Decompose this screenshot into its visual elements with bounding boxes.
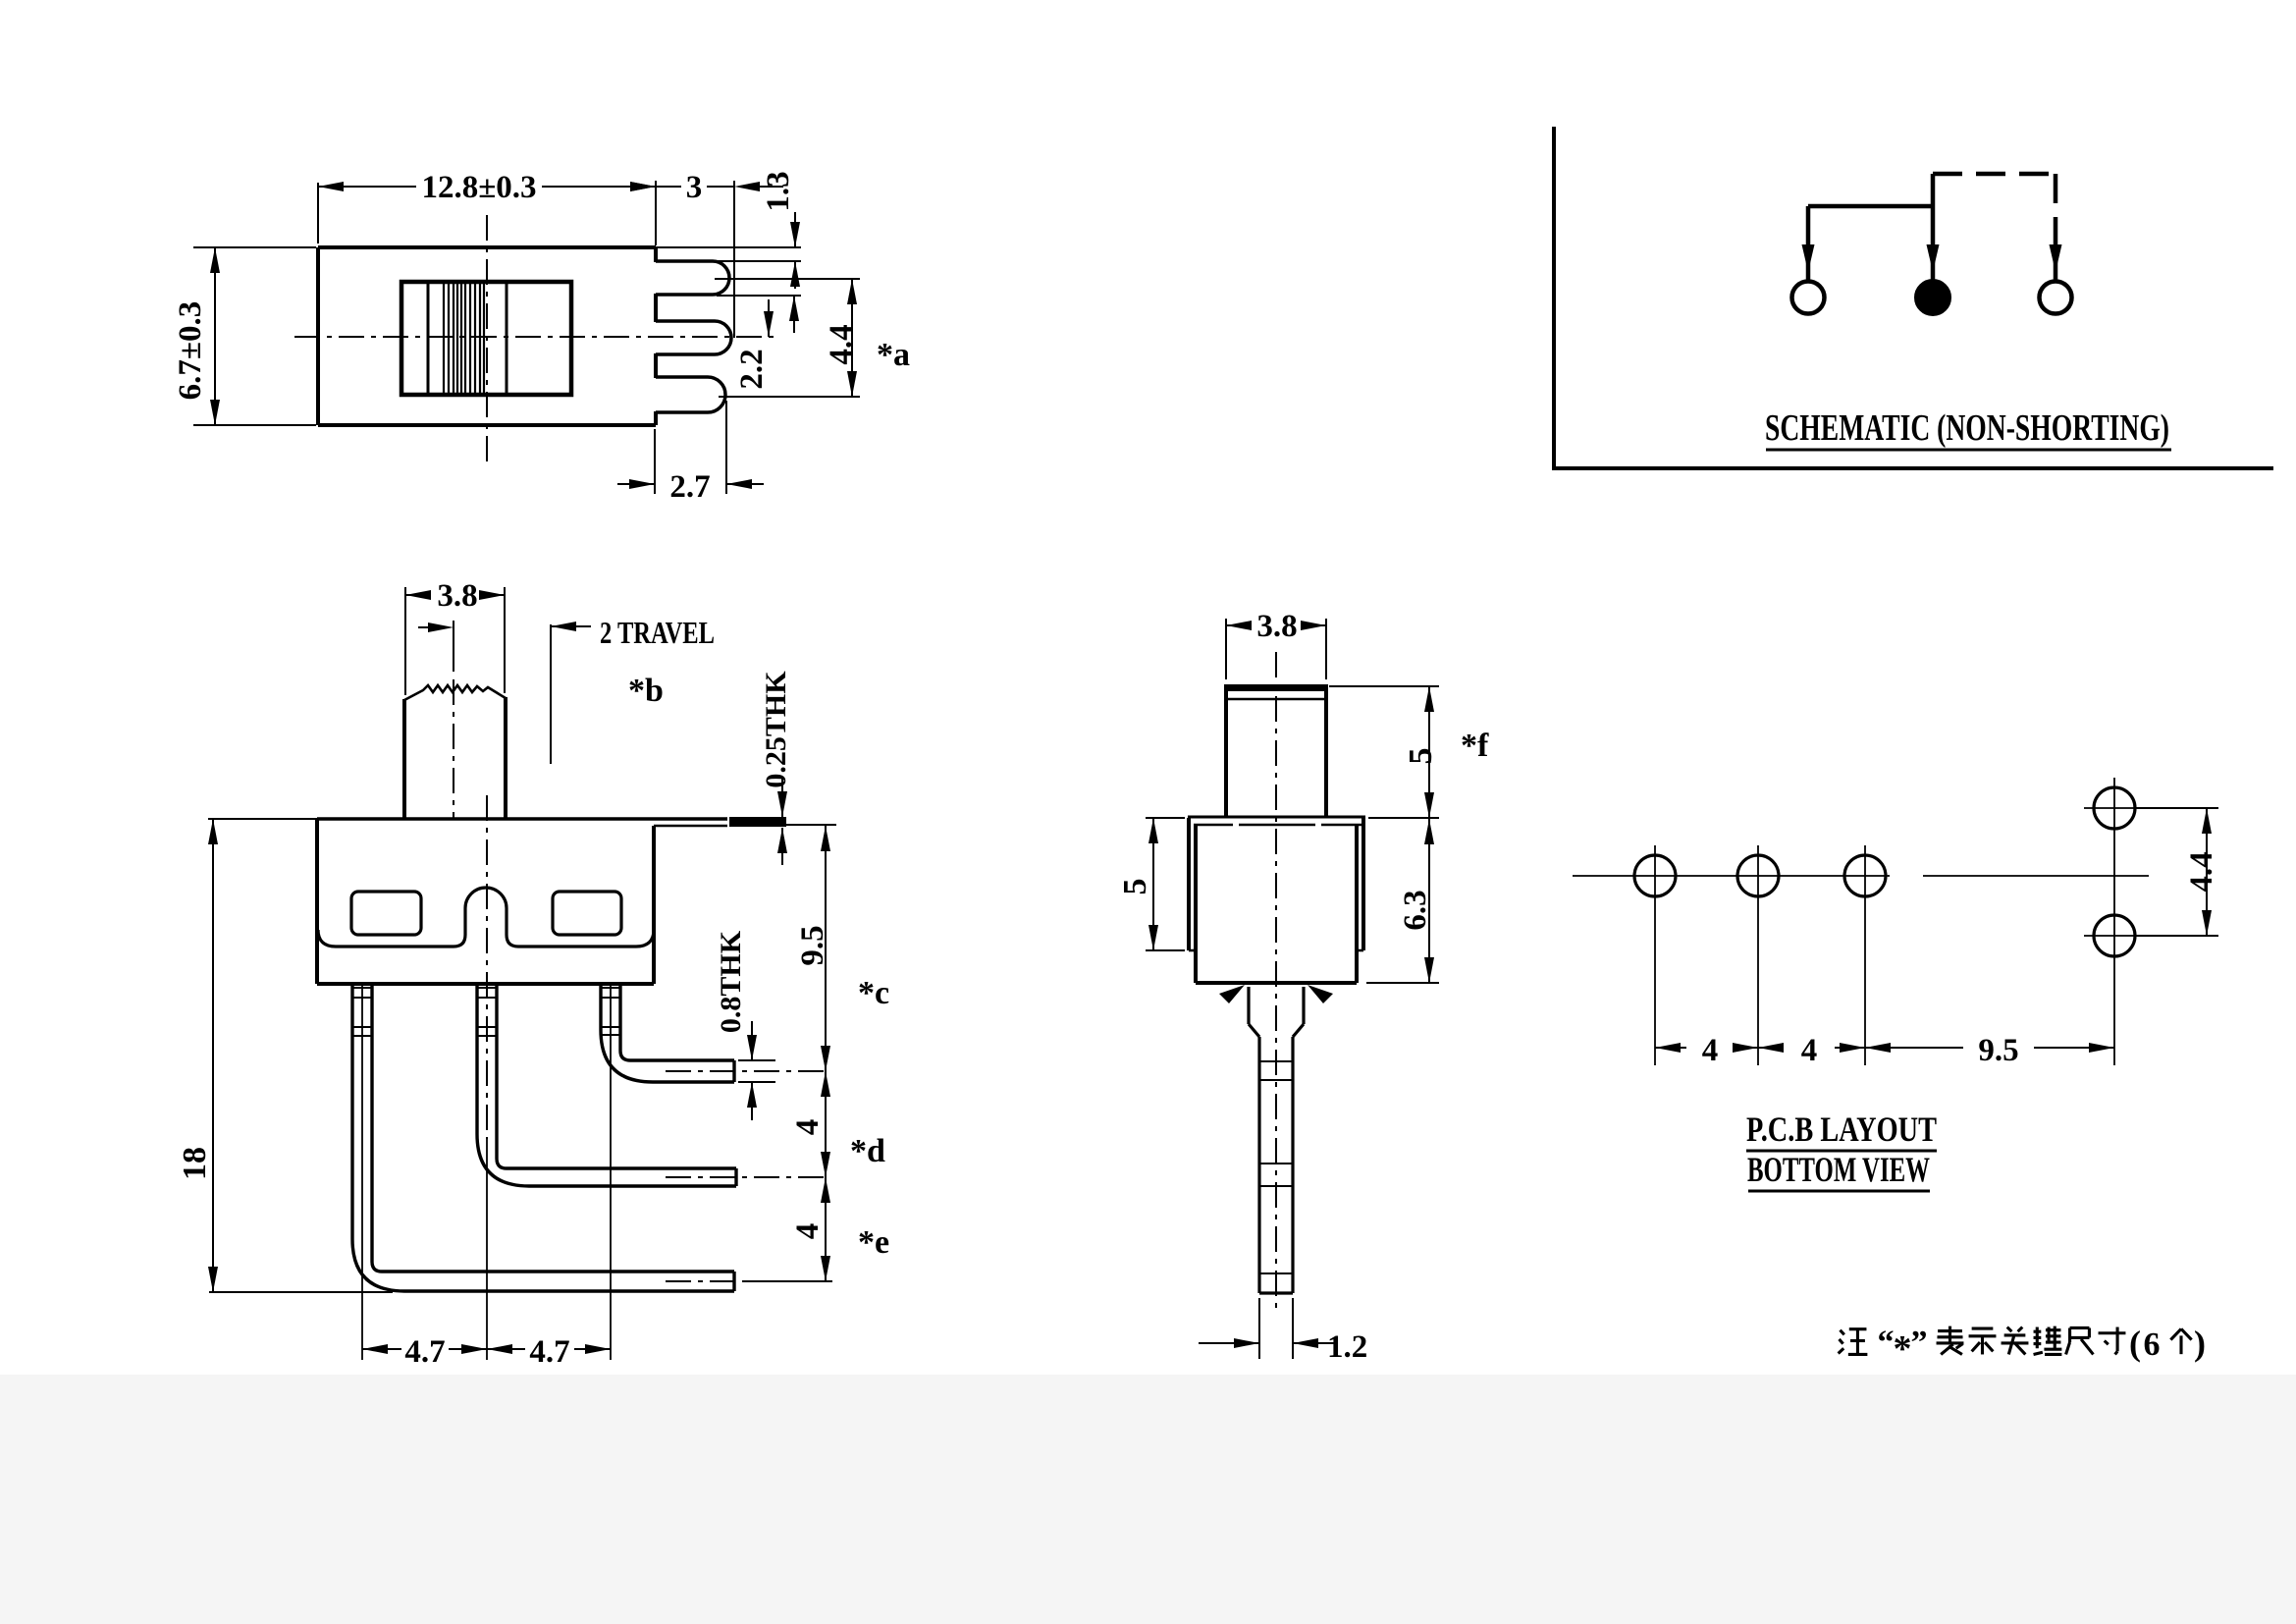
top view: switch body outline: [318, 247, 656, 425]
svg-text:*d: *d: [850, 1133, 885, 1169]
dimension 1.3 (notch): [656, 171, 801, 289]
dimension 3.8 (knob, side view): [1226, 609, 1326, 679]
dimension 6.7±0.3 (top view height): [173, 247, 316, 425]
svg-text:9.5: 9.5: [795, 925, 830, 965]
bottom scan band: [0, 1375, 2296, 1624]
front view: right window cutout: [553, 892, 621, 935]
svg-text:BOTTOM VIEW: BOTTOM VIEW: [1747, 1150, 1930, 1189]
svg-text:4: 4: [790, 1223, 826, 1240]
top view: terminal 1 (top prong): [656, 261, 729, 295]
svg-text:*a: *a: [877, 337, 910, 373]
side view: body with flange: [1188, 817, 1365, 983]
svg-text:”: ”: [1911, 1325, 1928, 1361]
dimension 9.5 with key mark *c: [786, 825, 889, 1071]
svg-text:*e: *e: [858, 1224, 889, 1261]
svg-text:4: 4: [790, 1119, 826, 1136]
svg-text:SCHEMATIC (NON-SHORTING): SCHEMATIC (NON-SHORTING): [1765, 407, 2169, 449]
top view: slider knob with knurling: [401, 282, 571, 395]
schematic wire: pole arrow to common terminal (solid): [1927, 174, 1940, 280]
svg-text:3.8: 3.8: [1256, 609, 1297, 644]
dimension 1.2 (pin width): [1199, 1298, 1367, 1365]
svg-text:12.8±0.3: 12.8±0.3: [421, 170, 536, 205]
svg-text:9.5: 9.5: [1978, 1033, 2018, 1068]
svg-text:0.25THK: 0.25THK: [760, 671, 792, 788]
top view: vertical centerline: [486, 215, 488, 467]
svg-text:4.4: 4.4: [824, 324, 859, 364]
svg-text:4: 4: [1801, 1033, 1818, 1068]
front view: knob centerline: [453, 621, 454, 818]
svg-text:6: 6: [2144, 1326, 2161, 1363]
dimension 2.7 (bottom terminal length): [617, 401, 764, 505]
front view: knob with break line: [404, 685, 506, 819]
dimension 3.8 (knob width, front): [405, 578, 505, 695]
svg-text:6.3: 6.3: [1398, 890, 1433, 930]
svg-text:*f: *f: [1461, 728, 1489, 764]
svg-text:1.2: 1.2: [1327, 1329, 1367, 1365]
schematic common terminal (filled circle): [1916, 281, 1950, 315]
side view: knob: [1226, 684, 1326, 817]
schematic terminal 1 (open circle): [1792, 282, 1825, 314]
dimension 5 with key mark *f (knob height): [1329, 686, 1489, 818]
svg-text:*c: *c: [858, 975, 889, 1011]
front view: pin 2 (middle, bent middle): [477, 984, 736, 1186]
front view: body outline: [208, 819, 727, 984]
front view: 0.25 thick metal tab (solid bar): [729, 817, 786, 827]
svg-text:4.7: 4.7: [529, 1334, 569, 1370]
dimension 4 (pin 3 to pin 2 leg) with key mark *d: [790, 1071, 885, 1177]
svg-text:5: 5: [1403, 748, 1439, 765]
svg-text:2.7: 2.7: [669, 469, 710, 505]
pcb layout: hole 4 (top right): [2084, 787, 2145, 829]
svg-text:*b: *b: [628, 673, 664, 709]
svg-text:(: (: [2129, 1324, 2141, 1363]
svg-text:2 TRAVEL: 2 TRAVEL: [600, 615, 715, 650]
dimension 2 TRAVEL with arrow leader: [418, 615, 715, 764]
pcb layout: hole 1: [1634, 845, 1676, 1065]
dimension 5 (flange height, side): [1117, 818, 1185, 950]
svg-text:5: 5: [1117, 879, 1153, 895]
side view: snap barbs: [1219, 985, 1333, 1003]
side view: mounting pin: [1249, 987, 1304, 1293]
dimension 18 (overall height): [177, 819, 393, 1292]
pcb layout title text: [1746, 1110, 1937, 1191]
dimension 6.3 (body height, side): [1366, 818, 1439, 983]
svg-text:4.7: 4.7: [404, 1334, 445, 1370]
svg-text:3.8: 3.8: [437, 578, 477, 614]
top view: terminal 2 (middle prong): [656, 321, 731, 354]
schematic border (title block corner): [1552, 127, 2273, 468]
side view: vertical centerline: [1275, 652, 1277, 1308]
front view: horizontal leg centerlines: [666, 1071, 829, 1281]
svg-text:4: 4: [1702, 1033, 1719, 1068]
svg-text:3: 3: [686, 170, 703, 205]
svg-text:2.2: 2.2: [734, 349, 770, 389]
svg-text:18: 18: [177, 1147, 213, 1180]
front view: pin 1 (left, bent bottom): [352, 984, 734, 1291]
top view: horizontal centerline: [294, 336, 775, 338]
svg-text:P.C.B LAYOUT: P.C.B LAYOUT: [1746, 1110, 1937, 1149]
top view: terminal 3 (bottom prong): [656, 377, 725, 412]
dimension 4.4 with key mark *a: [715, 279, 910, 397]
front view: pin centerline extension lines: [362, 795, 611, 1360]
svg-text:*: *: [1894, 1328, 1912, 1370]
svg-text:0.8THK: 0.8THK: [715, 930, 747, 1033]
dimension 4 (pin 2 to pin 1 leg) with key mark *e: [746, 1177, 889, 1281]
svg-text:“: “: [1878, 1325, 1895, 1361]
dimension 0.25THK (metal tab thickness): [760, 671, 792, 865]
svg-text:6.7±0.3: 6.7±0.3: [173, 301, 208, 401]
dimension 0.8THK (pin thickness): [715, 930, 775, 1120]
pcb layout: hole centerline horizontal: [1573, 875, 2149, 877]
dimension 2.2 (terminal pitch): [717, 296, 801, 390]
svg-text:1.3: 1.3: [761, 171, 796, 211]
front view: left window cutout: [351, 892, 421, 935]
front view: pin 3 (right, bent top): [601, 984, 734, 1082]
note: Chinese remark - asterisk indicates 6 key dimensions: [1839, 1324, 2206, 1370]
schematic terminal 3 (open circle): [2040, 282, 2072, 314]
pcb layout: right holes vertical centerline: [2113, 778, 2115, 1065]
key mark *b: [628, 673, 664, 709]
svg-text:4.4: 4.4: [2184, 851, 2219, 892]
dimension 3 (terminal length): [630, 170, 783, 338]
schematic wire: common to pole 1 (solid): [1802, 206, 1934, 280]
pcb layout: hole 2: [1737, 845, 1779, 1065]
pcb dimension 4.4 (right hole spacing): [2136, 808, 2219, 936]
schematic wire: common to pole 2 (dashed, alternate position): [1933, 174, 2062, 280]
pcb layout: hole 5 (bottom right): [2084, 915, 2145, 956]
dimension 4.7 4.7 (pin spacing): [362, 1334, 611, 1370]
schematic title text: [1765, 407, 2171, 450]
front view: inner cover contour with center dome: [318, 888, 654, 947]
svg-text:): ): [2194, 1324, 2206, 1363]
dimension 12.8±0.3 (top view width): [318, 170, 656, 245]
pcb layout: hole 3: [1844, 845, 1886, 1065]
pcb dimensions 4 / 4 / 9.5 (hole spacing): [1655, 1033, 2114, 1068]
